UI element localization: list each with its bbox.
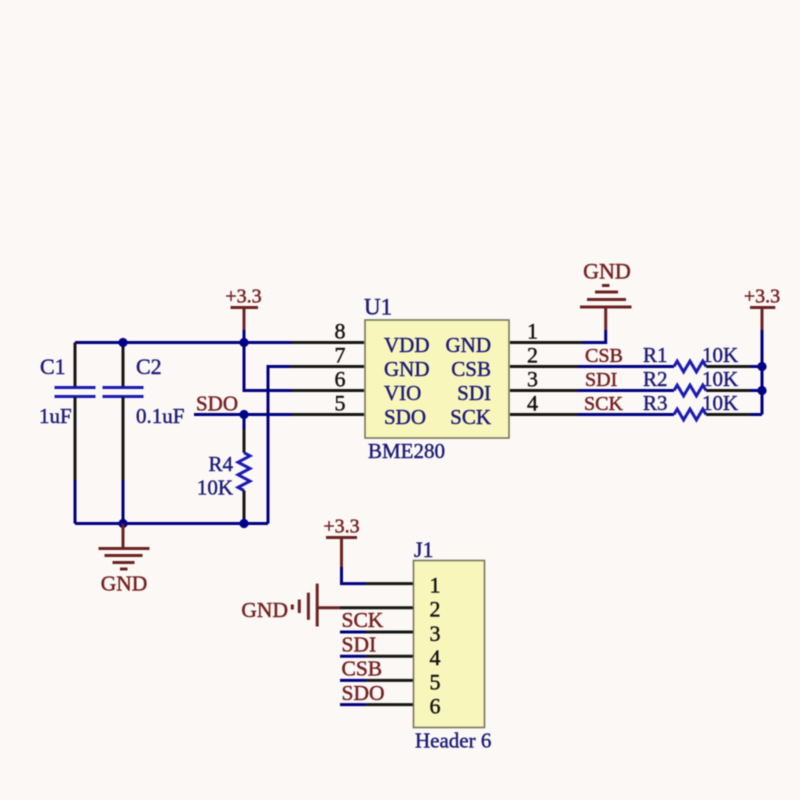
wire pin 2 CSB bbox=[510, 365, 578, 368]
power +3.3 (right) bbox=[744, 286, 780, 331]
power +3.3 (top, VDD) bbox=[225, 286, 261, 331]
svg-text:10K: 10K bbox=[197, 476, 233, 500]
wire J1 pin 4 bbox=[340, 655, 413, 658]
svg-text:1uF: 1uF bbox=[39, 404, 72, 428]
resistor R2 bbox=[674, 385, 762, 396]
junction top rail / C2 bbox=[118, 338, 127, 347]
svg-text:+3.3: +3.3 bbox=[323, 516, 359, 538]
wire pin 3 SDI bbox=[510, 389, 578, 392]
wire J1 pin 3 bbox=[340, 631, 413, 634]
svg-text:1: 1 bbox=[430, 573, 441, 598]
svg-text:VIO: VIO bbox=[384, 381, 421, 405]
wire GND to J1 pin 2 bbox=[340, 606, 413, 609]
svg-text:SCK: SCK bbox=[584, 393, 623, 415]
capacitor C1 bbox=[55, 343, 96, 524]
resistor R4 bbox=[238, 415, 250, 524]
svg-text:R2: R2 bbox=[643, 367, 668, 391]
wire pin 4 SCK bbox=[510, 413, 578, 416]
capacitor C2 bbox=[103, 343, 144, 524]
svg-text:SDO: SDO bbox=[342, 681, 385, 705]
svg-text:10K: 10K bbox=[702, 343, 738, 367]
svg-text:R4: R4 bbox=[208, 452, 233, 476]
wire +3.3 stub to rail bbox=[243, 330, 246, 343]
wire pin 1 to ground bbox=[510, 330, 606, 343]
svg-text:+3.3: +3.3 bbox=[744, 286, 780, 308]
svg-text:CSB: CSB bbox=[585, 345, 623, 367]
svg-text:SDI: SDI bbox=[457, 381, 491, 405]
svg-text:+3.3: +3.3 bbox=[225, 286, 261, 308]
svg-text:6: 6 bbox=[335, 367, 346, 392]
svg-text:SCK: SCK bbox=[450, 405, 491, 429]
svg-text:5: 5 bbox=[430, 669, 441, 694]
junction R2 / +3.3 rail bbox=[757, 386, 766, 395]
wire SDO bbox=[194, 413, 364, 416]
junction bottom rail / R4 bbox=[239, 519, 248, 528]
svg-text:J1: J1 bbox=[414, 537, 434, 562]
junction R1 / +3.3 rail bbox=[757, 362, 766, 371]
svg-text:7: 7 bbox=[335, 343, 346, 368]
wire bottom GND rail bbox=[75, 522, 268, 525]
svg-text:1: 1 bbox=[527, 319, 538, 344]
resistor R3 bbox=[674, 409, 762, 420]
svg-text:10K: 10K bbox=[702, 391, 738, 415]
junction bottom rail / C2 / GND bbox=[118, 519, 127, 528]
svg-text:R1: R1 bbox=[643, 343, 668, 367]
ground GND (bottom left) bbox=[99, 524, 150, 596]
svg-text:4: 4 bbox=[430, 645, 441, 670]
svg-text:0.1uF: 0.1uF bbox=[136, 404, 184, 428]
svg-text:8: 8 bbox=[335, 319, 346, 344]
svg-text:5: 5 bbox=[335, 391, 346, 416]
svg-text:6: 6 bbox=[430, 694, 441, 719]
ground GND (J1, sideways) bbox=[241, 584, 340, 627]
svg-text:SDI: SDI bbox=[585, 369, 617, 391]
IC U1 BME280 body bbox=[365, 320, 509, 438]
svg-text:GND: GND bbox=[241, 598, 288, 622]
wire GND branch from pin 7 bbox=[268, 367, 364, 524]
svg-text:R3: R3 bbox=[643, 391, 668, 415]
wire +3.3 to J1 pin 1 bbox=[342, 567, 414, 584]
connector J1 body bbox=[414, 561, 485, 728]
svg-text:4: 4 bbox=[527, 391, 538, 416]
svg-text:C1: C1 bbox=[40, 354, 66, 379]
resistor R1 bbox=[674, 361, 762, 372]
svg-text:3: 3 bbox=[430, 621, 441, 646]
svg-text:SDO: SDO bbox=[196, 392, 238, 416]
wire VIO branch bbox=[244, 343, 364, 391]
ground GND (top right, inverted) bbox=[580, 259, 632, 331]
wire J1 pin 5 bbox=[340, 679, 413, 682]
svg-text:3: 3 bbox=[527, 367, 538, 392]
svg-text:SDI: SDI bbox=[342, 632, 377, 656]
wire +3.3 rail (right vertical) bbox=[761, 330, 764, 415]
svg-text:GND: GND bbox=[101, 572, 148, 596]
svg-text:BME280: BME280 bbox=[368, 439, 445, 463]
power +3.3 (J1) bbox=[323, 516, 359, 568]
svg-text:VDD: VDD bbox=[384, 333, 430, 357]
svg-text:2: 2 bbox=[430, 597, 441, 622]
svg-text:SCK: SCK bbox=[342, 608, 384, 632]
svg-text:10K: 10K bbox=[702, 367, 738, 391]
svg-text:Header 6: Header 6 bbox=[415, 729, 491, 753]
junction top rail / +3.3 bbox=[239, 338, 248, 347]
wire J1 pin 6 bbox=[340, 703, 413, 706]
svg-text:SDO: SDO bbox=[384, 405, 426, 429]
svg-text:2: 2 bbox=[527, 343, 538, 368]
svg-text:C2: C2 bbox=[136, 354, 162, 379]
wire top rail VDD net bbox=[75, 341, 364, 344]
svg-text:CSB: CSB bbox=[451, 357, 491, 381]
junction SDO / R4 bbox=[239, 410, 248, 419]
svg-text:GND: GND bbox=[446, 333, 492, 357]
svg-text:U1: U1 bbox=[364, 295, 392, 320]
svg-text:GND: GND bbox=[384, 357, 430, 381]
svg-text:CSB: CSB bbox=[342, 657, 383, 681]
svg-text:GND: GND bbox=[583, 259, 631, 284]
